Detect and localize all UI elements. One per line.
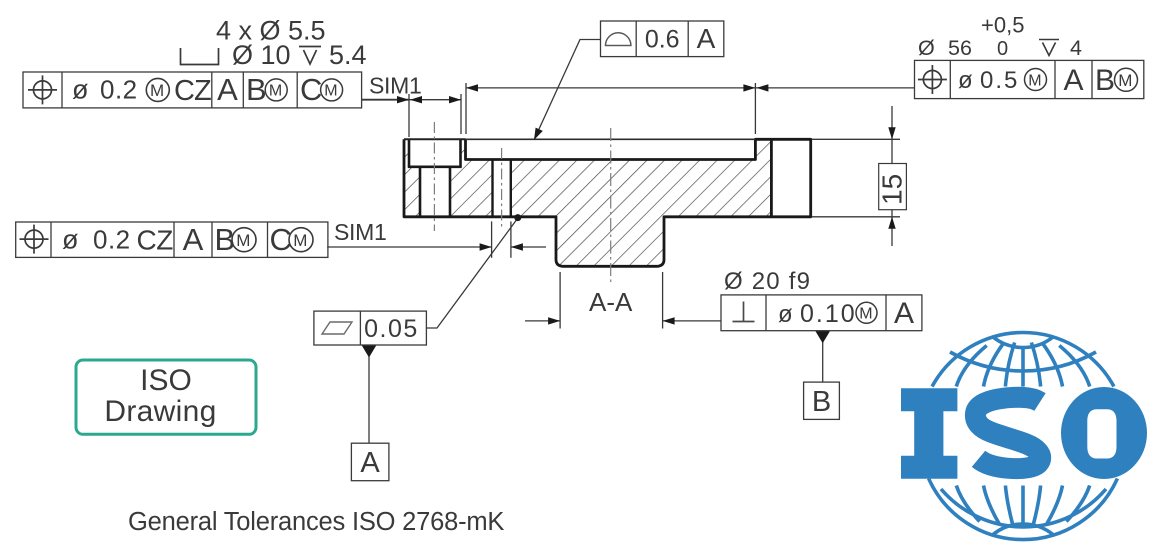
arrow SIM1 lower left — [480, 243, 492, 250]
top face edge left segment — [404, 138, 466, 140]
datum A stem — [368, 351, 370, 443]
svg-text:A: A — [894, 297, 914, 330]
svg-text:ISO: ISO — [140, 364, 192, 397]
extension line boss right (⌀20) — [662, 272, 664, 329]
svg-text:4: 4 — [1070, 36, 1082, 60]
datum B triangle — [815, 331, 830, 344]
svg-text:0.5: 0.5 — [980, 67, 1019, 94]
hole ⌀5.5 right wall — [449, 167, 452, 217]
arrow ⌀20 right — [663, 317, 675, 324]
svg-text:Ø 20 f9: Ø 20 f9 — [724, 268, 811, 295]
right bore inner wall — [770, 139, 773, 217]
svg-text:0.05: 0.05 — [364, 315, 419, 343]
svg-text:15: 15 — [877, 174, 908, 205]
extension line boss left (⌀20) — [559, 272, 561, 329]
flatness symbol FCF5 — [322, 322, 352, 334]
globe outer circle bottom arc — [929, 479, 1118, 540]
perpendicularity symbol FCF4 — [733, 302, 755, 322]
svg-text:0.6: 0.6 — [645, 26, 680, 54]
arrow 15 bottom — [888, 217, 895, 229]
dimension tail SIM1 lower right — [511, 246, 546, 248]
counterbore symbol — [181, 48, 219, 65]
FCF6 profile frame box — [601, 21, 724, 57]
counterbore ⌀10 right wall — [459, 140, 462, 167]
leader profile frame to top face — [534, 40, 601, 141]
svg-text:A-A: A-A — [589, 287, 633, 317]
extension line recess left wall (⌀56) — [465, 83, 467, 134]
FCF2 datum refs — [183, 222, 313, 257]
FCF2 tolerance text — [62, 225, 173, 256]
FCF3 tolerance text — [958, 67, 1047, 94]
arrow 15 top — [888, 127, 895, 139]
svg-text:ø: ø — [62, 225, 79, 255]
svg-text:M: M — [1028, 72, 1041, 89]
arrow ⌀56 right — [743, 84, 755, 91]
position symbol FCF3 — [918, 65, 947, 94]
globe bottom latitude arc — [941, 489, 1106, 527]
position symbol FCF2 — [20, 225, 49, 254]
svg-text:CZ: CZ — [174, 75, 211, 107]
arrow leader ⌀56 frame — [756, 84, 768, 91]
svg-text:M: M — [1118, 71, 1132, 90]
svg-text:ø: ø — [958, 67, 973, 94]
callout ⌀10 depth 5.4 — [232, 40, 367, 70]
svg-text:CZ: CZ — [137, 225, 174, 256]
dimension line SIM1 top middle segment — [409, 99, 461, 101]
svg-text:Drawing: Drawing — [104, 395, 216, 428]
top face edge behind recess (thin) — [466, 138, 756, 140]
leader SIM1 top from frame — [362, 99, 409, 101]
callout ⌀56 — [918, 13, 1082, 61]
svg-text:B: B — [246, 72, 267, 107]
globe outer circle top arc — [932, 332, 1114, 386]
hole ⌀5.5 left wall — [419, 167, 422, 217]
arrow ⌀56 left — [466, 84, 478, 91]
dimension tail ⌀20 left — [525, 320, 560, 322]
svg-text:A: A — [360, 447, 380, 479]
ISO letter I — [901, 388, 957, 479]
centerline M4 hole — [501, 148, 503, 230]
flange section cut outline — [404, 139, 811, 266]
FCF4 perpendicularity frame ⌀20 box — [721, 295, 922, 331]
hatch cut-face left of M4 hole — [466, 160, 493, 217]
extension line recess right wall (⌀56) — [754, 83, 756, 134]
globe top latitude arc — [950, 352, 1096, 371]
leader dot flatness — [514, 214, 521, 221]
leader SIM1 lower from frame — [327, 246, 491, 248]
svg-text:B: B — [812, 386, 831, 418]
hatch cut-face right of M4 hole — [511, 160, 756, 217]
svg-text:C: C — [300, 72, 322, 107]
svg-text:SIM1: SIM1 — [369, 73, 421, 99]
globe bottom meridians — [956, 486, 1089, 527]
arrow profile leader — [534, 128, 543, 140]
datum B stem — [822, 337, 824, 382]
svg-text:+0,5: +0,5 — [981, 13, 1024, 38]
ISO LOGO — [929, 332, 1118, 539]
datum A box — [351, 443, 389, 481]
svg-text:Ø 10: Ø 10 — [232, 40, 291, 70]
extension line 15 dim bottom — [812, 216, 900, 218]
counterbore ⌀10 left wall — [408, 140, 411, 167]
FCF5 flatness frame box — [314, 311, 427, 345]
arrow SIM1 top right — [449, 96, 461, 103]
leader to top-right position frame — [755, 87, 914, 89]
svg-text:A: A — [183, 222, 204, 257]
svg-text:0: 0 — [997, 38, 1008, 60]
profile of surface symbol FCF6 — [606, 33, 631, 46]
svg-text:B: B — [1095, 64, 1115, 97]
extension line recess left short — [460, 94, 462, 134]
hatch cut-face right rim — [755, 139, 771, 217]
depth symbol top-left — [299, 47, 321, 65]
arrow SIM1 lower right — [511, 243, 523, 250]
svg-text:M: M — [150, 81, 164, 100]
svg-text:M: M — [859, 305, 872, 322]
hatch cut-face bottom boss — [556, 217, 664, 266]
ISO letter S — [975, 397, 1040, 468]
counterbore ⌀10 bottom — [408, 166, 462, 169]
svg-text:56: 56 — [948, 36, 972, 60]
svg-text:A: A — [697, 23, 716, 54]
leader flatness frame to bottom face — [426, 219, 517, 329]
svg-text:0.2: 0.2 — [93, 225, 131, 255]
globe top pole cap arc — [993, 337, 1053, 348]
svg-text:ø: ø — [72, 75, 89, 105]
ISO Drawing badge — [76, 360, 256, 434]
svg-text:M: M — [324, 83, 337, 100]
extension line M4 right wall — [510, 221, 512, 257]
dimension line 15 upper — [891, 106, 893, 164]
svg-text:ø: ø — [778, 301, 793, 328]
dim 15 box — [879, 164, 907, 210]
globe top meridians — [956, 343, 1089, 387]
svg-text:Ø: Ø — [918, 36, 935, 60]
FCF4 tolerance text — [778, 300, 877, 328]
extension line flange left edge (SIM1 dim) — [408, 94, 410, 137]
centerline counterbore hole — [433, 122, 435, 231]
datum A triangle — [362, 345, 377, 358]
centerline flange axis — [610, 128, 612, 282]
leader ⌀20 to perpendicularity frame — [663, 320, 721, 322]
FCF1 datum refs — [217, 72, 342, 107]
svg-text:A: A — [1063, 64, 1083, 97]
FCF3 position frame ⌀56 box — [915, 60, 1144, 98]
arrow ⌀20 left — [548, 317, 560, 324]
depth symbol top-right — [1039, 40, 1059, 56]
FCF1 position frame 4x⌀5.5 box — [23, 72, 362, 108]
position symbol FCF1 — [28, 75, 57, 104]
svg-text:SIM1: SIM1 — [334, 219, 386, 245]
svg-text:M: M — [293, 231, 307, 250]
hatch cut-face left of counterbore hole — [404, 139, 420, 217]
hatch cut-face right of counterbore hole — [450, 139, 466, 217]
M4 tapped hole right wall — [510, 160, 512, 217]
ISO letter O — [1061, 387, 1147, 479]
dimension line ⌀56 — [466, 87, 755, 89]
svg-text:5.4: 5.4 — [329, 40, 367, 70]
svg-text:General Tolerances ISO 2768-mK: General Tolerances ISO 2768-mK — [128, 508, 504, 536]
arrow SIM1 top leader end — [397, 96, 409, 103]
extension line M4 left wall — [491, 221, 493, 257]
svg-text:M: M — [269, 83, 282, 100]
svg-text:M: M — [236, 231, 250, 250]
globe bottom pole cap arc — [993, 524, 1053, 535]
FCF3 datum refs — [1063, 64, 1137, 97]
datum B box — [804, 382, 840, 419]
dimension line 15 lower — [891, 210, 893, 246]
svg-text:A: A — [217, 72, 238, 107]
M4 tapped hole left wall — [491, 160, 493, 217]
svg-text:0.2: 0.2 — [100, 75, 138, 105]
FCF1 tolerance text — [72, 75, 211, 108]
FCF2 position frame 4xM4 box — [16, 222, 328, 257]
extension line 15 dim top — [812, 138, 900, 140]
svg-text:0.10: 0.10 — [800, 300, 857, 328]
arrow SIM1 top left — [410, 96, 422, 103]
